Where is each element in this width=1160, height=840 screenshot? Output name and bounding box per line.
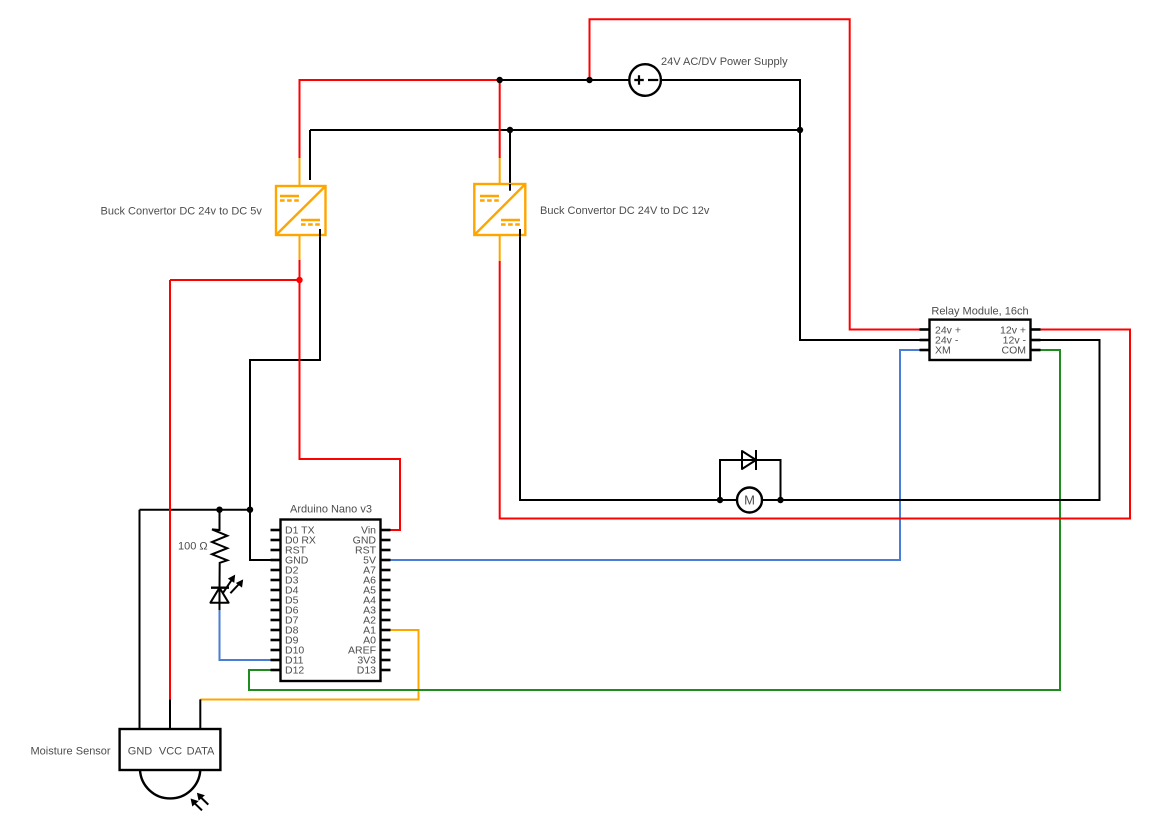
wire black drop to converter 1 top pin: [309, 130, 311, 180]
arduino right pin labels: [348, 525, 377, 677]
wire black drop to converter 2 top pin: [509, 130, 511, 191]
svg-text:Moisture Sensor: Moisture Sensor: [31, 746, 111, 758]
PS1 minus symbol: [648, 79, 658, 81]
moisture sensor MS1 dome: [140, 770, 200, 798]
svg-text:GND: GND: [128, 746, 153, 758]
wire red node A to arduino Vin: [300, 280, 401, 530]
arduino U3 box: [281, 520, 381, 682]
PS1 plus symbol: [634, 75, 644, 85]
U1 black output pin: [319, 229, 321, 236]
moisture sensor MS1 box: [120, 729, 221, 770]
U2 black input pin overlap: [509, 184, 511, 191]
diode D1 triangle: [742, 451, 756, 469]
arduino left pin labels: [285, 525, 316, 677]
wire black GND rail down to moisture sensor GND: [139, 510, 141, 729]
relay pin stub 12v-: [1031, 339, 1041, 342]
moisture sensor MS1 pin stub DATA: [199, 699, 201, 729]
buck converter U1 orange pin bottom: [299, 235, 301, 260]
wire blue relay XM to arduino 5V: [391, 350, 920, 560]
buck converter U2 orange pin bottom: [499, 235, 501, 261]
wire black converter1 output to GND rail: [250, 229, 320, 510]
svg-text:24V AC/DV Power Supply: 24V AC/DV Power Supply: [661, 56, 788, 68]
wire blue LED cathode to arduino D11: [220, 610, 271, 660]
junction dot at red rail tap: [586, 77, 592, 83]
wire red converter1 output down to node A: [299, 260, 301, 280]
svg-text:DATA: DATA: [187, 746, 215, 758]
wire red down to moisture sensor VCC: [169, 280, 171, 699]
relay pin stub 24v-: [920, 339, 930, 342]
moisture sensor MS1 pin stub GND: [139, 699, 141, 729]
wire black GND rail y=509.7: [140, 509, 251, 511]
svg-text:Arduino Nano v3: Arduino Nano v3: [290, 504, 372, 516]
wire orange arduino A1 to sensor DATA: [200, 630, 418, 700]
relay pin stub 12v+: [1031, 328, 1041, 331]
svg-text:VCC: VCC: [159, 746, 182, 758]
U2 diagonal: [474, 184, 525, 235]
U1 diagonal: [276, 186, 326, 235]
junction dot PS return on y129 rail: [797, 127, 803, 133]
junction dot motor right: [777, 497, 783, 503]
svg-text:D13: D13: [357, 665, 376, 677]
moisture sensor incident arrow 2: [191, 799, 202, 810]
wire red node A left to sensor VCC column: [170, 279, 300, 281]
wire black from junction to PS left terminal: [500, 79, 629, 81]
U2 DC symbol output: [501, 219, 520, 221]
wire black converter2 negative to motor line left: [520, 229, 737, 500]
buck converter U2 orange pin top: [499, 158, 501, 184]
svg-text:Relay Module, 16ch: Relay Module, 16ch: [931, 306, 1028, 318]
wire black PS right terminal to relay 24v-: [662, 80, 920, 340]
moisture sensor MS1 pin stub VCC: [169, 699, 171, 729]
wire red drop to converter 2 top: [499, 80, 501, 158]
wire black GND rail to arduino GND pin: [250, 510, 271, 560]
svg-text:M: M: [744, 493, 755, 508]
node A red junction dot: [296, 277, 302, 283]
LED LED1 emission arrow 1: [223, 575, 235, 592]
relay pin stub 24v+: [920, 328, 930, 331]
U1 DC symbol input: [280, 195, 299, 197]
svg-text:100 Ω: 100 Ω: [178, 541, 208, 553]
U2 black output pin overlap: [519, 229, 521, 236]
wire green relay COM to arduino D12: [249, 350, 1060, 690]
arduino right pin stubs: [381, 530, 391, 670]
svg-text:D12: D12: [285, 665, 304, 677]
moisture sensor incident arrow 1: [197, 793, 208, 804]
wire red feed y=80 to both converters: [300, 80, 500, 158]
wire red top rail from PS junction to relay 24v+: [590, 19, 920, 329]
LED LED1 emission arrow 2: [230, 580, 242, 593]
relay module K1 box: [930, 320, 1031, 360]
buck converter U1 box: [276, 186, 326, 235]
svg-text:COM: COM: [1002, 345, 1027, 357]
resistor R1 100 ohm: [212, 510, 227, 588]
wire black 24v- rail y=130: [310, 129, 800, 131]
motor M1 circle: [737, 488, 762, 513]
buck converter U1 orange pin top: [299, 158, 301, 186]
U2 DC symbol input: [480, 195, 499, 197]
wire black motor line right to relay 12v-: [762, 340, 1100, 500]
buck converter U2 box: [474, 184, 525, 235]
junction dot converter2 black pin on y129 rail: [507, 127, 513, 133]
diode D1 loop over motor: [720, 460, 781, 500]
junction dot resistor top: [216, 507, 222, 513]
wire red converter2 12v output to relay 12v+: [500, 261, 1130, 519]
svg-text:Buck Convertor DC 24v to DC 5v: Buck Convertor DC 24v to DC 5v: [101, 206, 263, 218]
svg-text:Buck Convertor DC 24V to DC 12: Buck Convertor DC 24V to DC 12v: [540, 205, 710, 217]
LED LED1 cathode bar: [211, 587, 229, 589]
junction dot GND rail to arduino: [247, 507, 253, 513]
diode D1 cathode bar: [755, 450, 757, 470]
relay pin stub XM: [920, 349, 930, 352]
U1 DC symbol output: [301, 219, 320, 221]
junction dot motor left: [717, 497, 723, 503]
arduino left pin stubs: [271, 530, 281, 670]
LED LED1 triangle: [210, 588, 228, 603]
power supply PS1 circle: [629, 64, 661, 96]
svg-text:XM: XM: [935, 345, 951, 357]
relay pin stub COM: [1031, 349, 1041, 352]
junction dot at converter feed split: [497, 77, 503, 83]
LED LED1 lead: [219, 588, 221, 610]
